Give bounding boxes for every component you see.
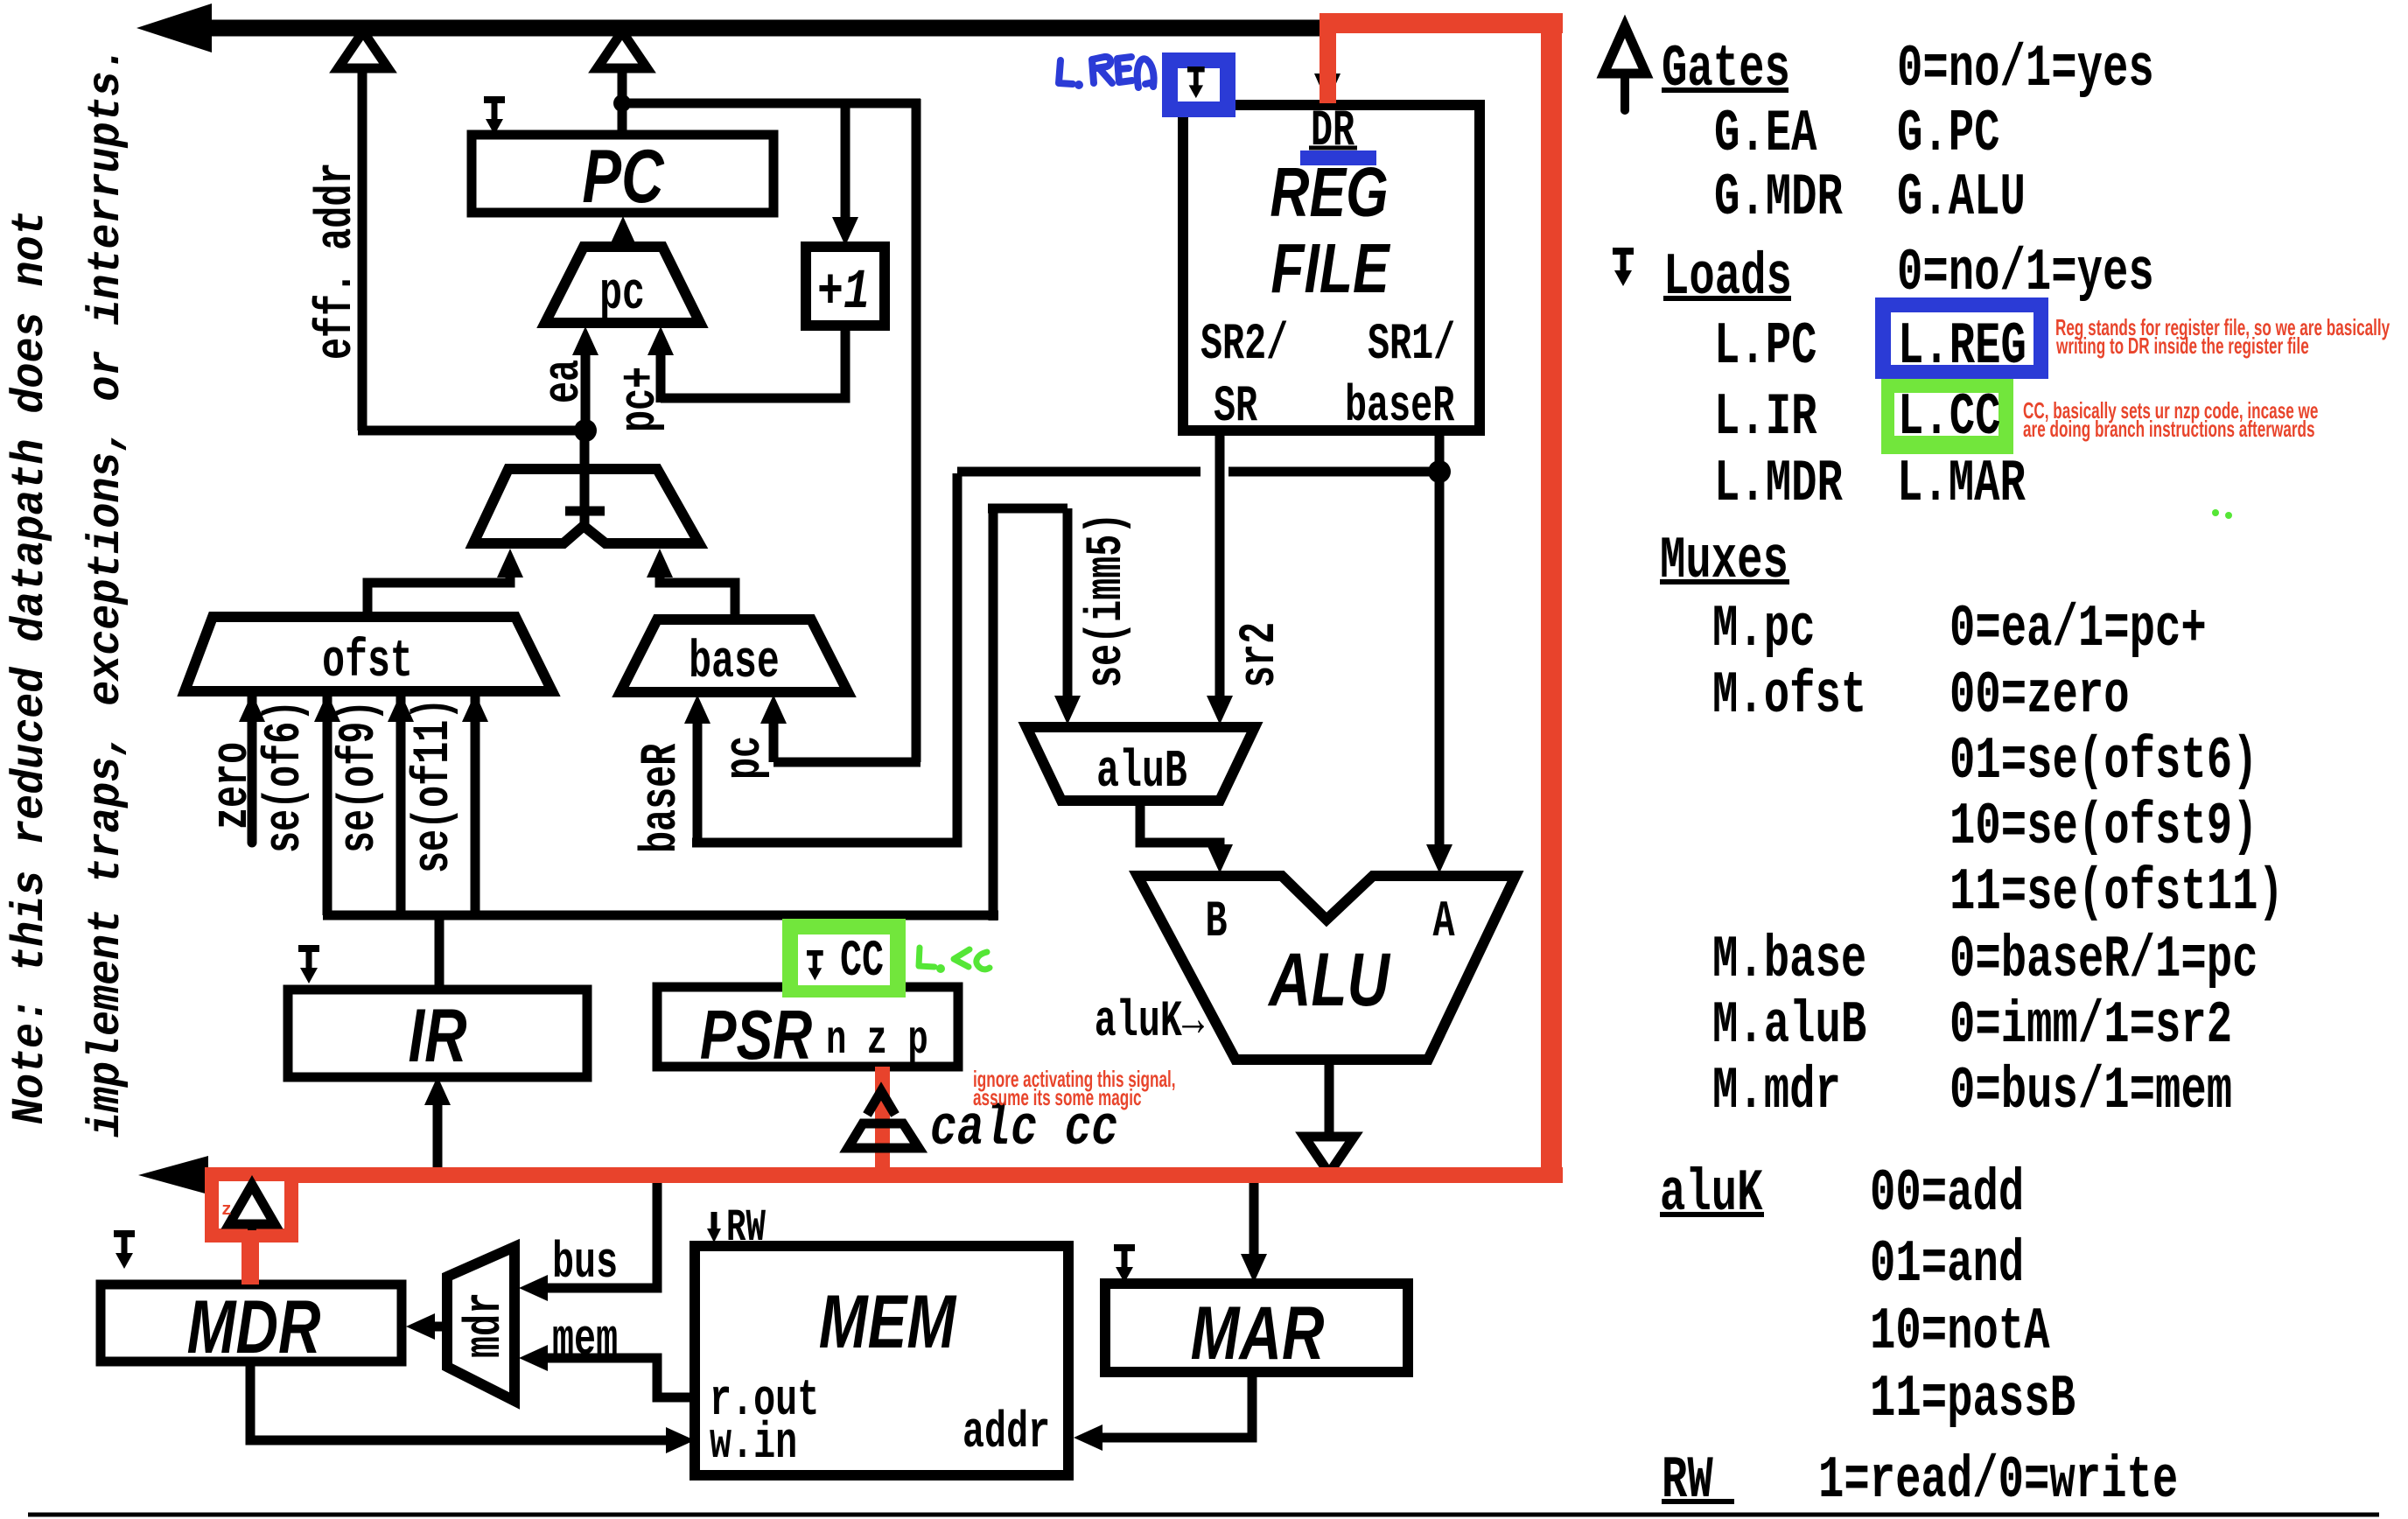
svg-text:base: base	[689, 633, 780, 693]
svg-text:ea: ea	[536, 360, 593, 403]
svg-text:Gates: Gates	[1662, 36, 1790, 103]
svg-text:baseR: baseR	[1345, 379, 1455, 436]
svg-text:0=no/1=yes: 0=no/1=yes	[1897, 240, 2154, 307]
svg-text:L.CC: L.CC	[1898, 384, 2000, 451]
svg-text:aluK: aluK	[1660, 1160, 1763, 1228]
svg-text:L.MDR: L.MDR	[1714, 451, 1843, 518]
svg-text:0=bus/1=mem: 0=bus/1=mem	[1949, 1058, 2232, 1125]
svg-text:ALU: ALU	[1267, 938, 1391, 1022]
svg-text:PSR: PSR	[700, 997, 812, 1074]
svg-text:M.mdr: M.mdr	[1712, 1058, 1841, 1125]
svg-text:addr: addr	[962, 1405, 1050, 1462]
svg-text:Muxes: Muxes	[1660, 528, 1788, 595]
svg-text:MAR: MAR	[1191, 1291, 1325, 1375]
svg-text:pc+: pc+	[612, 367, 669, 432]
svg-text:Loads: Loads	[1663, 244, 1792, 311]
svg-text:se(of6): se(of6)	[257, 700, 314, 853]
svg-text:0=ea/1=pc+: 0=ea/1=pc+	[1949, 596, 2207, 663]
svg-text:Note: this reduced datapath do: Note: this reduced datapath does not	[5, 210, 57, 1124]
svg-text:writing to DR inside the regis: writing to DR inside the register file	[2055, 332, 2309, 359]
svg-text:zero: zero	[205, 742, 262, 829]
svg-text:L.IR: L.IR	[1714, 384, 1817, 451]
svg-text:L.REG: L.REG	[1898, 313, 2026, 381]
svg-text:RW: RW	[1662, 1447, 1713, 1515]
svg-text:IR: IR	[408, 994, 466, 1078]
svg-text:0=baseR/1=pc: 0=baseR/1=pc	[1949, 927, 2257, 994]
svg-text:M.pc: M.pc	[1712, 596, 1815, 663]
svg-text:B: B	[1205, 894, 1227, 951]
svg-text:G.MDR: G.MDR	[1714, 164, 1843, 232]
svg-text:RW: RW	[726, 1201, 766, 1254]
svg-text:11=se(ofst11): 11=se(ofst11)	[1949, 859, 2284, 927]
svg-text:M.ofst: M.ofst	[1712, 662, 1866, 730]
svg-text:bus: bus	[552, 1235, 618, 1292]
svg-text:pc: pc	[717, 736, 774, 780]
svg-text:aluB: aluB	[1096, 742, 1187, 802]
svg-text:pc: pc	[599, 264, 645, 325]
svg-text:implement traps, exceptions, o: implement traps, exceptions, or interrup…	[81, 45, 133, 1137]
svg-text:se(of9): se(of9)	[332, 700, 388, 853]
svg-text:M.aluB: M.aluB	[1712, 992, 1866, 1060]
svg-text:10=notA: 10=notA	[1870, 1298, 2050, 1366]
svg-text:ofst: ofst	[322, 632, 413, 692]
svg-text:n z p: n z p	[826, 1014, 928, 1067]
svg-text:CC: CC	[840, 934, 884, 990]
svg-text:00=add: 00=add	[1870, 1160, 2024, 1228]
svg-text:mdr: mdr	[458, 1292, 514, 1358]
svg-text:01=and: 01=and	[1870, 1231, 2024, 1298]
svg-text:assume its some magic: assume its some magic	[973, 1084, 1142, 1110]
svg-text:PC: PC	[582, 135, 664, 219]
svg-text:A: A	[1432, 894, 1455, 951]
svg-text:G.ALU: G.ALU	[1897, 164, 2026, 232]
svg-text:+1: +1	[817, 262, 870, 325]
svg-text:se(of11): se(of11)	[406, 698, 463, 873]
svg-text:REG: REG	[1270, 154, 1388, 232]
svg-text:M.base: M.base	[1712, 927, 1866, 994]
svg-text:11=passB: 11=passB	[1870, 1366, 2075, 1433]
svg-text:z: z	[221, 1200, 232, 1221]
svg-text:1=read/0=write: 1=read/0=write	[1818, 1447, 2178, 1515]
svg-text:MEM: MEM	[819, 1280, 957, 1364]
svg-text:SR: SR	[1214, 379, 1258, 436]
svg-text:SR2/: SR2/	[1200, 317, 1288, 374]
svg-text:L.PC: L.PC	[1714, 313, 1816, 381]
svg-text:mem: mem	[552, 1312, 618, 1369]
svg-text:00=zero: 00=zero	[1949, 662, 2130, 730]
svg-text:eff. addr: eff. addr	[309, 163, 366, 360]
svg-text:0=imm/1=sr2: 0=imm/1=sr2	[1949, 992, 2232, 1060]
svg-text:L.MAR: L.MAR	[1897, 451, 2026, 518]
svg-text:FILE: FILE	[1270, 230, 1390, 308]
svg-text:G.PC: G.PC	[1897, 101, 1999, 168]
svg-text:baseR: baseR	[633, 743, 690, 853]
svg-text:w.in: w.in	[710, 1416, 797, 1473]
svg-text:are doing branch instructions: are doing branch instructions afterwards	[2023, 416, 2315, 442]
svg-text:sr2: sr2	[1232, 622, 1289, 688]
svg-text:MDR: MDR	[187, 1285, 321, 1369]
svg-text:aluK→: aluK→	[1095, 994, 1205, 1051]
svg-text:10=se(ofst9): 10=se(ofst9)	[1949, 794, 2257, 861]
svg-text:0=no/1=yes: 0=no/1=yes	[1897, 36, 2154, 103]
svg-text:SR1/: SR1/	[1368, 317, 1455, 374]
svg-text:01=se(ofst6): 01=se(ofst6)	[1949, 728, 2257, 795]
svg-text:G.EA: G.EA	[1714, 101, 1817, 168]
svg-text:se(imm5): se(imm5)	[1079, 513, 1136, 688]
